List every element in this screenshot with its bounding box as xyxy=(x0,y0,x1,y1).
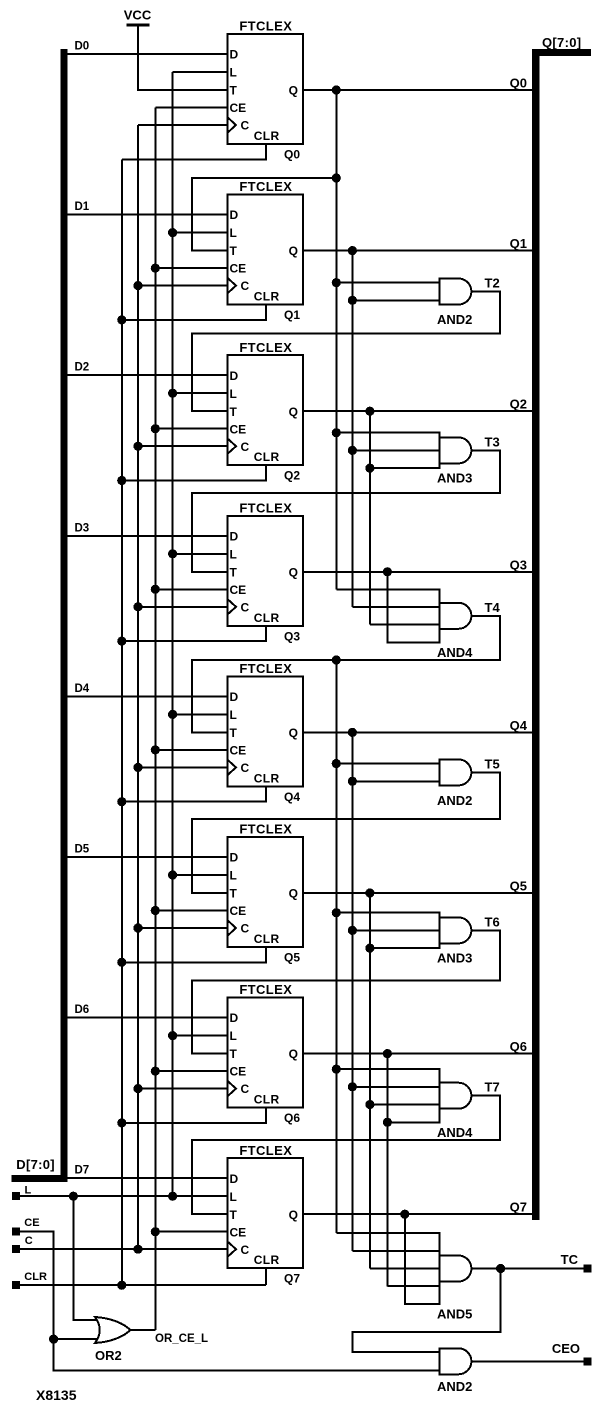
svg-text:L: L xyxy=(230,708,237,722)
svg-text:D: D xyxy=(230,1172,239,1186)
wire T5 input 1 xyxy=(336,763,439,765)
power VCC symbol xyxy=(124,8,152,27)
wire T6 input 2 xyxy=(352,929,439,931)
svg-text:Q5: Q5 xyxy=(510,879,527,894)
wire T6 output to U7 pin T xyxy=(192,930,500,1053)
node Q1 output junction xyxy=(348,246,357,255)
node L column junction at U2 xyxy=(168,228,177,237)
wire T2 input 1 xyxy=(336,282,439,284)
svg-text:Q2: Q2 xyxy=(284,469,300,483)
svg-text:C: C xyxy=(241,761,250,775)
svg-text:Q3: Q3 xyxy=(510,557,527,572)
svg-text:Q0: Q0 xyxy=(284,148,300,162)
node Q5 output junction xyxy=(365,888,374,897)
svg-text:T: T xyxy=(230,887,238,901)
and-gate AND4 (T7) body xyxy=(439,1083,471,1109)
and-gate AND4 (T7) input extension box xyxy=(387,1069,439,1122)
svg-text:FTCLEX: FTCLEX xyxy=(239,661,292,676)
svg-text:AND3: AND3 xyxy=(437,471,472,486)
svg-text:Q7: Q7 xyxy=(510,1200,527,1215)
node L column junction at U7 xyxy=(168,1031,177,1040)
svg-text:D[7:0]: D[7:0] xyxy=(16,1157,55,1172)
wire C branch to U7 pin C xyxy=(138,1088,228,1090)
wire T7 input 2 xyxy=(352,1086,439,1088)
terminal CE xyxy=(12,1228,20,1236)
node T6 input 3 junction xyxy=(365,944,374,953)
svg-text:AND2: AND2 xyxy=(437,312,472,327)
svg-text:Q: Q xyxy=(289,726,298,740)
svg-text:CLR: CLR xyxy=(254,290,280,304)
wire D4 (bus to U5 pin D) xyxy=(67,695,228,697)
svg-text:T4: T4 xyxy=(485,600,501,615)
svg-text:AND2: AND2 xyxy=(437,793,472,808)
wire D1 (bus to U2 pin D) xyxy=(67,214,228,216)
wire L branch to U3 pin L xyxy=(173,392,228,394)
wire Q4 (U5 pin Q to bus) xyxy=(303,731,532,733)
wire L branch to U5 pin L xyxy=(173,713,228,715)
wire C clock distribution column xyxy=(137,125,139,1249)
wire T7 input 4 xyxy=(387,1121,439,1123)
svg-text:Q: Q xyxy=(289,565,298,579)
wire CE branch to U6 pin CE xyxy=(155,910,227,912)
svg-text:D7: D7 xyxy=(75,1165,90,1177)
wire CE input down to OR2 xyxy=(20,1232,54,1339)
svg-text:T5: T5 xyxy=(485,756,500,771)
svg-text:FTCLEX: FTCLEX xyxy=(239,19,292,34)
svg-text:CLR: CLR xyxy=(254,129,280,143)
node CLR column junction at U6 xyxy=(117,958,126,967)
svg-text:C: C xyxy=(241,922,250,936)
svg-text:CEO: CEO xyxy=(552,1341,580,1356)
wire CLR branch from U5 pin CLR xyxy=(122,786,266,801)
node CLR column junction at U5 xyxy=(117,797,126,806)
svg-text:C: C xyxy=(241,440,250,454)
svg-text:C: C xyxy=(241,279,250,293)
flip-flop U4 FTCLEX (bit 3) xyxy=(228,500,304,625)
svg-text:L: L xyxy=(230,869,237,883)
and-gate AND4 (T4) input extension box xyxy=(387,589,439,642)
wire T3 input 1 xyxy=(336,432,439,434)
wire CE branch to U3 pin CE xyxy=(155,428,227,430)
svg-text:L: L xyxy=(230,1190,237,1204)
wire C branch to U2 pin C xyxy=(138,285,228,287)
wire CE (OR_CE_L) distribution column xyxy=(154,108,156,1331)
svg-text:AND2: AND2 xyxy=(437,1379,472,1394)
node C column junction at U2 xyxy=(133,281,142,290)
wire TC input 2 xyxy=(352,1250,439,1252)
wire C branch to U4 pin C xyxy=(138,606,228,608)
node L column junction at U3 xyxy=(168,389,177,398)
svg-text:Q6: Q6 xyxy=(510,1039,527,1054)
svg-text:T2: T2 xyxy=(485,276,500,291)
svg-text:T7: T7 xyxy=(485,1080,500,1095)
and-gate AND5 (TC) body xyxy=(439,1256,471,1282)
wire CLR branch from U4 pin CLR xyxy=(122,626,266,641)
wire CLR branch from U6 pin CLR xyxy=(122,947,266,962)
svg-text:Q: Q xyxy=(289,405,298,419)
svg-text:Q: Q xyxy=(289,1208,298,1222)
svg-text:FTCLEX: FTCLEX xyxy=(239,179,292,194)
bus D[7:0] (left data bus bar) xyxy=(11,49,67,1182)
wire CE branch to U8 pin CE xyxy=(155,1231,227,1233)
node T6 input 1 junction xyxy=(332,908,341,917)
svg-text:Q: Q xyxy=(289,1047,298,1061)
node L column junction at U6 xyxy=(168,870,177,879)
node CE column junction at U4 xyxy=(151,585,160,594)
wire Q0 carry column xyxy=(335,90,337,589)
flip-flop U8 FTCLEX (bit 7) xyxy=(228,1143,304,1268)
node T3 input 1 junction xyxy=(332,428,341,437)
svg-text:D5: D5 xyxy=(75,844,90,856)
wire Q1 carry column xyxy=(351,251,353,607)
flip-flop U5 FTCLEX (bit 4) xyxy=(228,661,304,786)
svg-text:C: C xyxy=(241,1082,250,1096)
svg-text:Q7: Q7 xyxy=(284,1272,300,1286)
svg-text:OR_CE_L: OR_CE_L xyxy=(155,1333,208,1345)
flip-flop U6 FTCLEX (bit 5) xyxy=(228,822,304,947)
node CLR column junction xyxy=(117,1281,126,1290)
wire T4 input 4 xyxy=(387,641,439,643)
and-gate AND3 (T3) body xyxy=(439,437,471,463)
wire C branch to U5 pin C xyxy=(138,766,228,768)
node T7 input 1 junction xyxy=(332,1065,341,1074)
wire TC input 3 xyxy=(370,1268,439,1270)
node CE branch junction xyxy=(49,1335,58,1344)
node CLR column junction at U3 xyxy=(117,476,126,485)
node CLR column junction at U4 xyxy=(117,637,126,646)
svg-text:FTCLEX: FTCLEX xyxy=(239,500,292,515)
svg-text:Q: Q xyxy=(289,887,298,901)
svg-text:L: L xyxy=(230,66,237,80)
wire L branch to U7 pin L xyxy=(173,1035,228,1037)
svg-text:CLR: CLR xyxy=(254,1093,280,1107)
node C column junction at U5 xyxy=(133,763,142,772)
wire CLR distribution column xyxy=(121,159,123,1285)
node T3 input 2 junction xyxy=(348,446,357,455)
svg-text:FTCLEX: FTCLEX xyxy=(239,982,292,997)
svg-text:CLR: CLR xyxy=(254,932,280,946)
wire CLR branch from U2 pin CLR xyxy=(122,305,266,320)
wire CLR branch from U1 pin CLR xyxy=(122,144,266,159)
svg-text:CLR: CLR xyxy=(24,1271,47,1283)
wire Q2 carry column xyxy=(369,411,371,624)
svg-text:Q4: Q4 xyxy=(510,718,528,733)
svg-text:Q: Q xyxy=(289,84,298,98)
node L column junction at U5 xyxy=(168,710,177,719)
wire C input to U8 pin C xyxy=(20,1248,228,1250)
svg-text:OR2: OR2 xyxy=(95,1348,122,1363)
node T7 input 2 junction xyxy=(348,1082,357,1091)
svg-text:X8135: X8135 xyxy=(36,1387,77,1403)
node C column junction xyxy=(133,1245,142,1254)
svg-text:CE: CE xyxy=(230,422,247,436)
node Q6 output junction xyxy=(383,1049,392,1058)
wire OR2 output to CE column xyxy=(130,1329,155,1331)
svg-text:TC: TC xyxy=(561,1252,579,1267)
node CE column junction at U7 xyxy=(151,1067,160,1076)
and-gate AND2 (T5) body xyxy=(439,759,471,785)
svg-text:T: T xyxy=(230,565,238,579)
svg-text:CE: CE xyxy=(230,744,247,758)
svg-text:D2: D2 xyxy=(75,362,90,374)
wire Q2 (U3 pin Q to bus) xyxy=(303,410,532,412)
svg-text:CE: CE xyxy=(230,1225,247,1239)
flip-flop U3 FTCLEX (bit 2) xyxy=(228,340,304,465)
wire CE to OR2 input 2 xyxy=(54,1338,99,1340)
wire TC input 1 xyxy=(336,1232,439,1234)
wire T5 output to U6 pin T xyxy=(192,772,500,893)
node CE column junction at U3 xyxy=(151,424,160,433)
svg-text:Q5: Q5 xyxy=(284,951,300,965)
wire CLR input to U8 pin CLR xyxy=(20,1284,266,1286)
wire TC input 4 xyxy=(387,1285,439,1287)
wire VCC to U1 pin T xyxy=(138,26,227,90)
wire TC input 5 xyxy=(405,1303,440,1305)
svg-text:CE: CE xyxy=(230,262,247,276)
node L column junction xyxy=(168,1192,177,1201)
wire L branch to U2 pin L xyxy=(173,232,228,234)
node T6 input 2 junction xyxy=(348,926,357,935)
svg-text:T: T xyxy=(230,405,238,419)
svg-text:FTCLEX: FTCLEX xyxy=(239,822,292,837)
wire CLR stub from U8 pin CLR xyxy=(265,1268,267,1285)
terminal L xyxy=(12,1192,20,1200)
node L column junction at U4 xyxy=(168,549,177,558)
wire T4 output to U5 pin T xyxy=(192,616,500,733)
flip-flop U2 FTCLEX (bit 1) xyxy=(228,179,304,304)
node C column junction at U4 xyxy=(133,602,142,611)
wire Q7 (U8 pin Q to bus) xyxy=(303,1213,532,1215)
wire Q6 carry column xyxy=(386,1054,388,1287)
wire T6 input 3 xyxy=(370,947,439,949)
wire D0 (bus to U1 pin D) xyxy=(67,53,228,55)
svg-text:L: L xyxy=(230,226,237,240)
wire TC output xyxy=(471,1268,587,1270)
terminal C xyxy=(12,1245,20,1253)
node T7 input 3 junction xyxy=(365,1100,374,1109)
svg-text:FTCLEX: FTCLEX xyxy=(239,1143,292,1158)
wire Q5 carry column xyxy=(369,893,371,1269)
svg-text:Q1: Q1 xyxy=(510,236,527,251)
svg-text:Q4: Q4 xyxy=(284,790,300,804)
node TC junction xyxy=(496,1264,505,1273)
svg-text:T: T xyxy=(230,726,238,740)
svg-text:D3: D3 xyxy=(75,522,90,534)
wire Q5 (U6 pin Q to bus) xyxy=(303,892,532,894)
wire Q3 (U4 pin Q to bus) xyxy=(303,571,532,573)
svg-text:L: L xyxy=(230,387,237,401)
wire D3 (bus to U4 pin D) xyxy=(67,535,228,537)
svg-text:Q1: Q1 xyxy=(284,308,300,322)
wire Q3 carry column xyxy=(386,572,388,643)
svg-text:CE: CE xyxy=(24,1217,39,1229)
svg-text:FTCLEX: FTCLEX xyxy=(239,340,292,355)
wire L distribution column xyxy=(172,72,174,1196)
node L branch to OR2 xyxy=(69,1192,78,1201)
svg-text:CE: CE xyxy=(230,101,247,115)
wire T6 input 1 xyxy=(336,912,439,914)
wire T2 output to U3 pin T xyxy=(192,292,500,412)
wire C branch to U3 pin C xyxy=(138,445,228,447)
svg-text:D: D xyxy=(230,369,239,383)
wire T3 input 3 xyxy=(370,467,439,469)
svg-text:AND3: AND3 xyxy=(437,951,472,966)
or-gate OR2 (OR_CE_L) xyxy=(95,1317,130,1343)
svg-text:D0: D0 xyxy=(75,41,90,53)
node T7 input 4 junction xyxy=(383,1118,392,1127)
wire T5 input 2 xyxy=(352,780,439,782)
svg-text:T: T xyxy=(230,84,238,98)
node Q2 output junction xyxy=(365,407,374,416)
terminal CLR xyxy=(12,1281,20,1289)
wire CE branch to U5 pin CE xyxy=(155,749,227,751)
svg-text:D6: D6 xyxy=(75,1004,90,1016)
node Q0 output junction xyxy=(332,85,341,94)
node CLR column junction at U2 xyxy=(117,315,126,324)
node CE column junction at U6 xyxy=(151,906,160,915)
wire CLR branch from U3 pin CLR xyxy=(122,465,266,480)
and-gate AND5 (TC) input extension box xyxy=(405,1233,440,1304)
svg-text:AND4: AND4 xyxy=(437,1125,473,1140)
svg-text:L: L xyxy=(230,547,237,561)
and-gate AND3 (T6) body xyxy=(439,917,471,943)
svg-text:C: C xyxy=(241,600,250,614)
svg-text:D4: D4 xyxy=(75,683,90,695)
svg-text:C: C xyxy=(241,119,250,133)
node Q7 output junction xyxy=(400,1210,409,1219)
wire Q0 (U1 pin Q to bus) xyxy=(303,89,532,91)
wire T3 output to U4 pin T xyxy=(192,450,500,571)
svg-text:D: D xyxy=(230,208,239,222)
wire Q6 (U7 pin Q to bus) xyxy=(303,1053,532,1055)
node T4 column tap on return wire xyxy=(332,655,341,664)
svg-text:D: D xyxy=(230,851,239,865)
wire L branch to U4 pin L xyxy=(173,553,228,555)
wire D5 (bus to U6 pin D) xyxy=(67,856,228,858)
wire Q0 to U2 pin T xyxy=(192,178,336,251)
wire L to OR2 input 1 xyxy=(73,1196,100,1320)
node Q3 output junction xyxy=(383,567,392,576)
svg-text:D: D xyxy=(230,48,239,62)
wire T2 input 2 xyxy=(352,299,439,301)
wire L input to U8 pin L xyxy=(20,1195,228,1197)
and-gate AND4 (T4) body xyxy=(439,603,471,629)
svg-text:D: D xyxy=(230,1011,239,1025)
svg-text:C: C xyxy=(25,1235,33,1247)
bus Q[7:0] (right output bus bar) xyxy=(532,49,591,1220)
node T5 input 1 junction xyxy=(332,759,341,768)
wire D2 (bus to U3 pin D) xyxy=(67,374,228,376)
wire Q7 carry column xyxy=(404,1214,406,1304)
svg-text:Q2: Q2 xyxy=(510,397,527,412)
node C column junction at U3 xyxy=(133,442,142,451)
wire T7 input 3 xyxy=(370,1104,439,1106)
node T3 input 3 junction xyxy=(365,464,374,473)
flip-flop U1 FTCLEX (bit 0) xyxy=(228,19,304,144)
wire T4 input 2 xyxy=(352,606,439,608)
and-gate AND2 (T2) body xyxy=(439,279,471,305)
wire L branch to U1 pin L xyxy=(173,71,228,73)
svg-text:VCC: VCC xyxy=(124,8,152,23)
svg-text:CLR: CLR xyxy=(254,450,280,464)
wire CE branch to U2 pin CE xyxy=(155,267,227,269)
wire T4 input 3 xyxy=(370,624,439,626)
svg-text:D: D xyxy=(230,529,239,543)
svg-text:T6: T6 xyxy=(485,914,500,929)
and-gate AND3 (T3) input extension box xyxy=(370,433,439,468)
wire CEO output xyxy=(471,1360,587,1362)
wire D7 (bus to U8 pin D) xyxy=(67,1177,228,1179)
wire D6 (bus to U7 pin D) xyxy=(67,1017,228,1019)
svg-text:CLR: CLR xyxy=(254,1253,280,1267)
node Q4 output junction xyxy=(348,728,357,737)
wire T7 output to U8 pin T xyxy=(192,1096,500,1215)
wire C branch to U1 pin C xyxy=(138,124,228,126)
svg-text:C: C xyxy=(241,1243,250,1257)
node T2 input 2 junction xyxy=(348,296,357,305)
node T5 input 2 junction xyxy=(348,777,357,786)
svg-text:Q0: Q0 xyxy=(510,76,527,91)
svg-text:L: L xyxy=(25,1184,32,1196)
wire Q1 (U2 pin Q to bus) xyxy=(303,250,532,252)
wire Q4 carry column xyxy=(351,732,353,1250)
node Q0 branch to U2 T xyxy=(332,173,341,182)
svg-text:Q6: Q6 xyxy=(284,1111,300,1125)
node CE column junction at U5 xyxy=(151,745,160,754)
svg-text:Q: Q xyxy=(289,244,298,258)
node C column junction at U7 xyxy=(133,1084,142,1093)
svg-text:T3: T3 xyxy=(485,434,500,449)
svg-text:T: T xyxy=(230,244,238,258)
svg-text:CLR: CLR xyxy=(254,771,280,785)
node CE column junction at U2 xyxy=(151,264,160,273)
svg-text:CE: CE xyxy=(230,1065,247,1079)
terminal TC xyxy=(583,1265,591,1273)
svg-text:AND4: AND4 xyxy=(437,645,473,660)
wire T3 input 2 xyxy=(352,449,439,451)
svg-text:T: T xyxy=(230,1208,238,1222)
wire C branch to U6 pin C xyxy=(138,927,228,929)
svg-text:L: L xyxy=(230,1029,237,1043)
node CLR column junction at U7 xyxy=(117,1118,126,1127)
flip-flop U7 FTCLEX (bit 6) xyxy=(228,982,304,1107)
wire T7 input 1 xyxy=(336,1068,439,1070)
wire T4 input 1 xyxy=(336,588,439,590)
wire CE to CEO AND2 input 2 xyxy=(54,1339,440,1371)
and-gate AND2 (CEO) body xyxy=(439,1348,471,1374)
wire L branch to U6 pin L xyxy=(173,874,228,876)
svg-text:T: T xyxy=(230,1047,238,1061)
svg-text:CE: CE xyxy=(230,583,247,597)
svg-text:D1: D1 xyxy=(75,201,90,213)
svg-text:CLR: CLR xyxy=(254,611,280,625)
wire CLR branch from U7 pin CLR xyxy=(122,1108,266,1123)
wire T4 carry column xyxy=(335,660,337,1233)
wire CE branch to U1 pin CE xyxy=(155,107,227,109)
and-gate AND3 (T6) input extension box xyxy=(370,913,439,948)
svg-text:CE: CE xyxy=(230,904,247,918)
svg-text:AND5: AND5 xyxy=(437,1306,472,1321)
terminal CEO xyxy=(583,1357,591,1365)
node T2 input 1 junction xyxy=(332,278,341,287)
svg-text:Q[7:0]: Q[7:0] xyxy=(542,35,581,50)
svg-text:D: D xyxy=(230,690,239,704)
node C column junction at U6 xyxy=(133,923,142,932)
wire TC to CEO AND2 input 1 xyxy=(353,1269,501,1353)
svg-text:Q3: Q3 xyxy=(284,629,300,643)
node CE column junction at U8 xyxy=(151,1227,160,1236)
wire CE branch to U4 pin CE xyxy=(155,588,227,590)
